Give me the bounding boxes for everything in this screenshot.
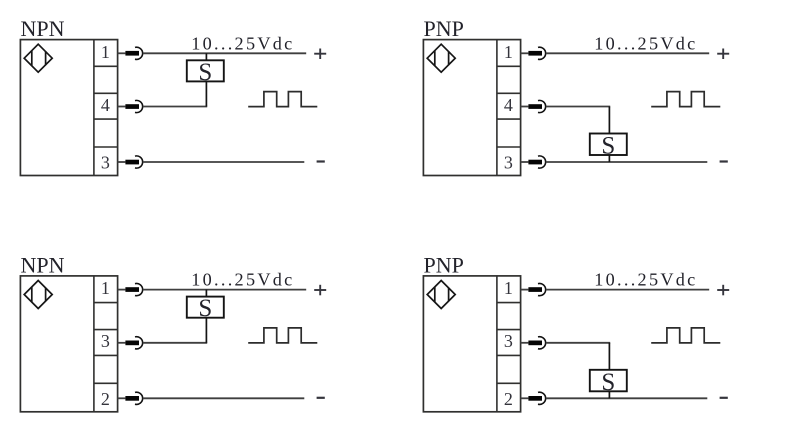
- pin 1 connector plug bar (top-left): [125, 51, 139, 56]
- pin column divider (top-left): [93, 40, 95, 176]
- minus terminal (top-right): [720, 160, 728, 162]
- pin 1 stub wire (top-right): [521, 52, 529, 54]
- branch wire S to pin 4 (top-left): [205, 81, 207, 106]
- minus terminal (top-left): [317, 160, 325, 162]
- switch box S (top-right): [590, 133, 627, 160]
- branch wire + to S (top-left): [205, 53, 207, 60]
- diamond right chord (bottom-left): [45, 288, 47, 302]
- sensor body outline (bottom-left): [20, 276, 117, 412]
- pin 3 connector plug bar (bottom-left): [125, 341, 139, 346]
- branch wire + to S (bottom-left): [205, 290, 207, 297]
- sensor symbol diamond (bottom-right): [427, 281, 455, 309]
- svg-text:1: 1: [504, 42, 513, 62]
- wire pin 1 to + supply (bottom-left): [143, 289, 306, 291]
- diamond right chord (top-right): [448, 51, 450, 65]
- pin 3 connector plug bar (top-left): [125, 160, 139, 165]
- svg-text:S: S: [601, 369, 615, 396]
- wire pin 4 to load branch (top-left): [143, 106, 207, 108]
- svg-text:1: 1: [504, 278, 513, 298]
- pin 3 stub wire (top-left): [118, 161, 126, 163]
- plus terminal (top-right): [717, 49, 729, 60]
- svg-text:2: 2: [504, 389, 513, 409]
- sensor body outline (bottom-right): [423, 276, 520, 412]
- switch box S (bottom-right): [590, 369, 627, 396]
- sensor symbol diamond (top-right): [427, 44, 455, 72]
- cell divider 1 (top-left): [94, 65, 118, 67]
- svg-text:S: S: [601, 133, 615, 160]
- svg-text:3: 3: [101, 153, 110, 173]
- branch wire pin 4 to S (top-right): [608, 107, 610, 134]
- pin 2 connector socket arc (bottom-right): [538, 392, 546, 404]
- wire pin 3 to - supply (top-left): [143, 161, 304, 163]
- sensor symbol diamond (top-left): [24, 44, 52, 72]
- cell divider 4 (top-left): [94, 146, 118, 148]
- svg-text:S: S: [198, 59, 212, 86]
- cell divider 3 (bottom-left): [94, 354, 118, 356]
- pin 3 connector plug bar (bottom-right): [528, 341, 542, 346]
- pin 1 stub wire (top-left): [118, 52, 126, 54]
- pin column divider (bottom-right): [496, 276, 498, 412]
- svg-text:1: 1: [101, 42, 110, 62]
- wire pin 4 to load branch (top-right): [546, 106, 610, 108]
- pin column divider (bottom-left): [93, 276, 95, 412]
- plus terminal (bottom-left): [314, 285, 326, 296]
- svg-text:PNP: PNP: [424, 16, 464, 41]
- switch box S (top-left): [187, 59, 224, 86]
- branch wire S to pin 3 (bottom-left): [205, 318, 207, 343]
- pin 1 stub wire (bottom-left): [118, 289, 126, 291]
- cell divider 2 (bottom-left): [94, 329, 118, 331]
- pin 3 stub wire (bottom-left): [118, 342, 126, 344]
- pin 4 connector socket arc (top-right): [538, 100, 546, 112]
- svg-text:3: 3: [504, 331, 513, 351]
- cell divider 2 (bottom-right): [497, 329, 521, 331]
- svg-text:10...25Vdc: 10...25Vdc: [191, 33, 294, 53]
- cell divider 2 (top-left): [94, 92, 118, 94]
- pin 2 connector plug bar (bottom-left): [125, 396, 139, 401]
- branch wire S to - line (bottom-right): [608, 391, 610, 398]
- wire pin 3 to load branch (bottom-right): [546, 342, 610, 344]
- cell divider 3 (bottom-right): [497, 354, 521, 356]
- pin 1 connector plug bar (top-right): [528, 51, 542, 56]
- diamond right chord (bottom-right): [448, 288, 450, 302]
- svg-text:NPN: NPN: [21, 252, 65, 277]
- diamond left chord (top-left): [31, 51, 33, 66]
- pin column divider (top-right): [496, 40, 498, 176]
- svg-text:4: 4: [101, 95, 110, 115]
- wire pin 1 to + supply (bottom-right): [546, 289, 709, 291]
- svg-text:PNP: PNP: [424, 252, 464, 277]
- cell divider 4 (top-right): [497, 146, 521, 148]
- pin 3 connector plug bar (top-right): [528, 160, 542, 165]
- plus terminal (top-left): [314, 49, 326, 60]
- pin 1 connector socket arc (top-left): [135, 47, 143, 59]
- wire pin 3 to load branch (bottom-left): [143, 342, 207, 344]
- cell divider 1 (bottom-right): [497, 302, 521, 304]
- pin 3 stub wire (bottom-right): [521, 342, 529, 344]
- minus terminal (bottom-left): [317, 397, 325, 399]
- wire pin 3 to - supply (top-right): [546, 161, 708, 163]
- svg-text:S: S: [198, 295, 212, 322]
- svg-text:1: 1: [101, 278, 110, 298]
- output pulse waveform (top-left): [248, 92, 317, 107]
- diamond left chord (bottom-right): [434, 287, 436, 302]
- switch box S (bottom-left): [187, 295, 224, 322]
- svg-text:NPN: NPN: [21, 16, 65, 41]
- sensor symbol diamond (bottom-left): [24, 281, 52, 309]
- pin 1 connector socket arc (top-right): [538, 47, 546, 59]
- branch wire S to - line (top-right): [608, 155, 610, 162]
- cell divider 1 (top-right): [497, 65, 521, 67]
- cell divider 2 (top-right): [497, 92, 521, 94]
- svg-text:2: 2: [101, 389, 110, 409]
- pin 3 connector socket arc (bottom-right): [538, 337, 546, 349]
- wire pin 1 to + supply (top-right): [546, 52, 709, 54]
- pin 1 connector socket arc (bottom-right): [538, 284, 546, 296]
- pin 2 connector socket arc (bottom-left): [135, 392, 143, 404]
- wire pin 1 to + supply (top-left): [143, 52, 306, 54]
- output pulse waveform (bottom-right): [651, 328, 720, 343]
- pin 4 stub wire (top-right): [521, 106, 529, 108]
- pin 1 connector plug bar (bottom-right): [528, 287, 542, 292]
- cell divider 1 (bottom-left): [94, 302, 118, 304]
- pin 3 connector socket arc (top-right): [538, 156, 546, 168]
- output pulse waveform (bottom-left): [248, 328, 317, 343]
- pin 2 stub wire (bottom-left): [118, 397, 126, 399]
- cell divider 4 (bottom-left): [94, 382, 118, 384]
- svg-text:10...25Vdc: 10...25Vdc: [594, 270, 697, 290]
- cell divider 3 (top-right): [497, 118, 521, 120]
- svg-text:3: 3: [101, 331, 110, 351]
- svg-text:10...25Vdc: 10...25Vdc: [191, 270, 294, 290]
- diamond left chord (top-right): [434, 51, 436, 66]
- branch wire pin 3 to S (bottom-right): [608, 343, 610, 370]
- pin 4 stub wire (top-left): [118, 106, 126, 108]
- pin 3 connector socket arc (bottom-left): [135, 337, 143, 349]
- minus terminal (bottom-right): [720, 397, 728, 399]
- plus terminal (bottom-right): [717, 285, 729, 296]
- wire pin 2 to - supply (bottom-right): [546, 397, 708, 399]
- cell divider 3 (top-left): [94, 118, 118, 120]
- pin 2 connector plug bar (bottom-right): [528, 396, 542, 401]
- diamond right chord (top-left): [45, 51, 47, 65]
- cell divider 4 (bottom-right): [497, 382, 521, 384]
- pin 1 connector plug bar (bottom-left): [125, 287, 139, 292]
- pin 3 connector socket arc (top-left): [135, 156, 143, 168]
- pin 2 stub wire (bottom-right): [521, 397, 529, 399]
- diamond left chord (bottom-left): [31, 287, 33, 302]
- pin 4 connector plug bar (top-left): [125, 104, 139, 109]
- sensor body outline (top-left): [20, 40, 117, 176]
- pin 1 stub wire (bottom-right): [521, 289, 529, 291]
- output pulse waveform (top-right): [651, 92, 720, 107]
- svg-text:10...25Vdc: 10...25Vdc: [594, 33, 697, 53]
- sensor body outline (top-right): [423, 40, 520, 176]
- pin 3 stub wire (top-right): [521, 161, 529, 163]
- wire pin 2 to - supply (bottom-left): [143, 397, 304, 399]
- svg-text:4: 4: [504, 95, 513, 115]
- pin 1 connector socket arc (bottom-left): [135, 284, 143, 296]
- pin 4 connector plug bar (top-right): [528, 104, 542, 109]
- pin 4 connector socket arc (top-left): [135, 100, 143, 112]
- svg-text:3: 3: [504, 153, 513, 173]
